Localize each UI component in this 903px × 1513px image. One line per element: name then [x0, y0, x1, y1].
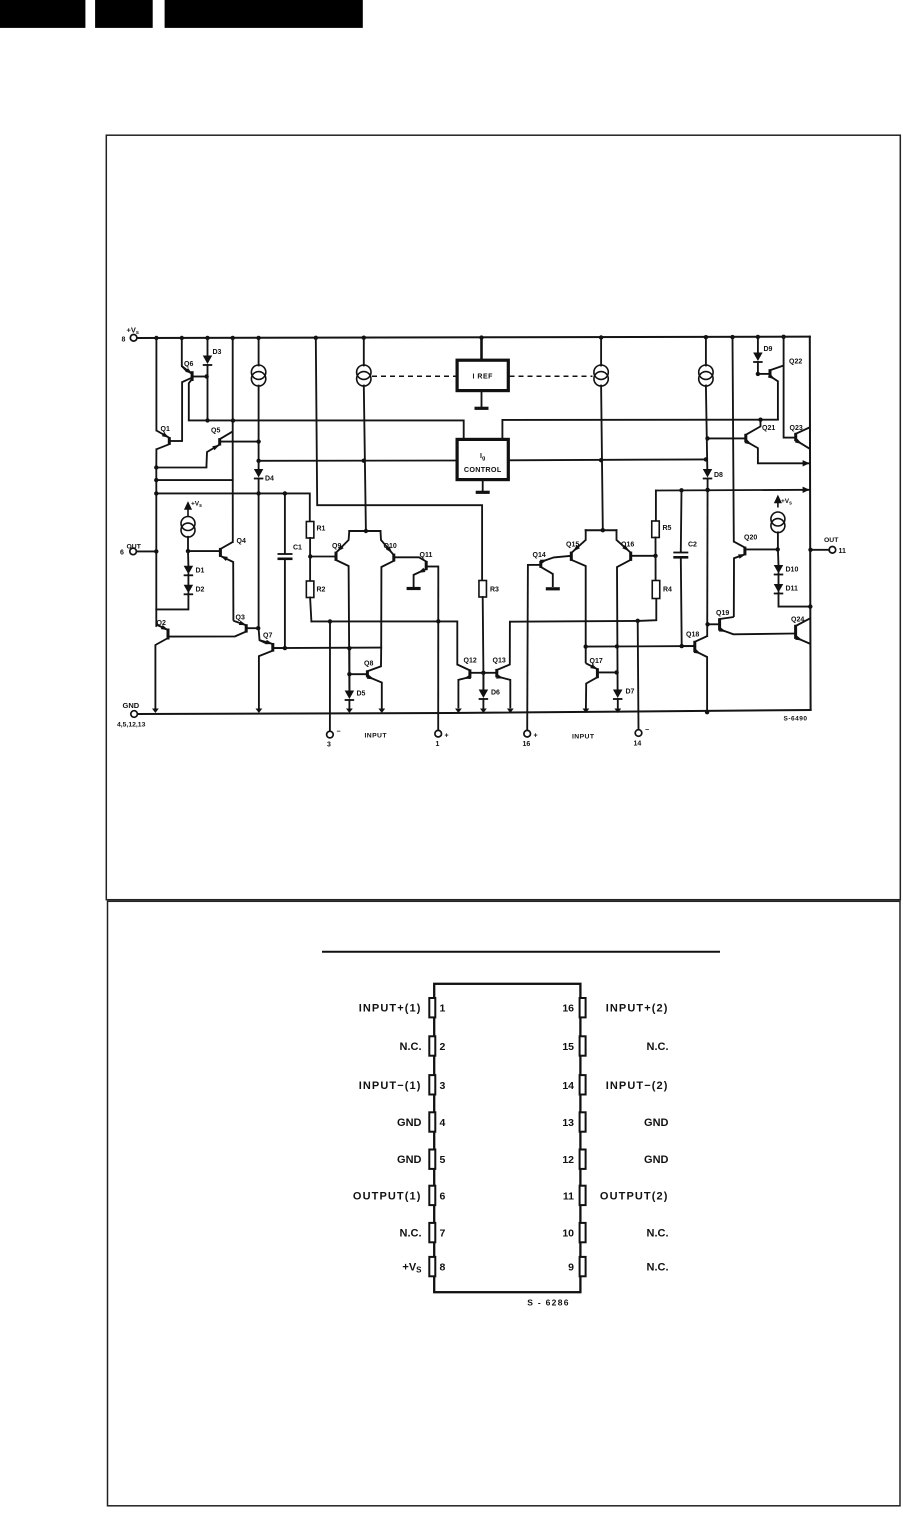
transistor Q7 — [259, 640, 285, 710]
svg-text:3: 3 — [440, 1080, 446, 1092]
junction on +Vs rail — [154, 336, 158, 340]
junction C2 bottom — [680, 644, 684, 648]
pin 1 lead — [429, 998, 435, 1017]
svg-text:R3: R3 — [490, 587, 499, 594]
junction link on left branch — [154, 478, 158, 482]
svg-text:6: 6 — [440, 1190, 446, 1202]
junction OUT(2) on branch — [808, 548, 812, 552]
svg-text:Q7: Q7 — [263, 633, 272, 640]
wire I3 to diff pair tail (2) — [601, 386, 603, 530]
diode D9 — [753, 353, 763, 363]
svg-text:14: 14 — [562, 1080, 574, 1092]
svg-text:INPUT−(1): INPUT−(1) — [359, 1080, 422, 1092]
svg-text:6: 6 — [120, 550, 124, 557]
wire D4 to left output node — [259, 479, 265, 643]
junction D11 on right branch — [808, 604, 812, 608]
svg-text:Q8: Q8 — [364, 661, 373, 668]
current source I6 +Vs arrow — [775, 497, 781, 508]
svg-text:INPUT−(2): INPUT−(2) — [606, 1080, 669, 1092]
svg-text:GND: GND — [397, 1117, 422, 1129]
svg-text:Q21: Q21 — [762, 425, 775, 432]
rail contact D5 — [346, 709, 353, 714]
wire node to output stage rail — [155, 468, 157, 494]
wire rail to D3 — [207, 338, 209, 356]
svg-text:16: 16 — [562, 1003, 574, 1015]
svg-text:Q15: Q15 — [566, 542, 579, 549]
wire rail to current source I1 — [258, 338, 260, 366]
svg-text:3: 3 — [327, 742, 331, 749]
ground symbol at Q11 emitter — [407, 587, 421, 590]
junction on +Vs rail — [362, 336, 366, 340]
junction left branch top — [154, 491, 158, 495]
transistor Q10 — [381, 546, 426, 647]
svg-text:OUT: OUT — [127, 544, 142, 551]
rail contact D7 — [614, 709, 621, 714]
pin 10 lead — [580, 1223, 586, 1242]
transistor Q17 — [586, 663, 617, 708]
svg-text:+VS: +VS — [402, 1262, 422, 1275]
pin 9 lead — [580, 1257, 586, 1276]
junction Q21 collector on bias bus — [758, 418, 762, 422]
svg-text:+Vs: +Vs — [781, 498, 792, 507]
resistor R2 — [306, 581, 314, 598]
pin 11 lead — [580, 1186, 586, 1205]
junction C2 top tap — [679, 488, 683, 492]
pin 13 lead — [580, 1112, 586, 1131]
svg-text:11: 11 — [563, 1190, 574, 1202]
current source I1 — [251, 365, 265, 386]
svg-text:7: 7 — [440, 1228, 446, 1240]
terminal pin 6 OUT(1) — [130, 548, 137, 555]
wire OUT(1) stub — [136, 550, 156, 552]
wire Q20 base wire — [745, 548, 777, 550]
junction on +Vs rail — [704, 335, 708, 339]
svg-text:N.C.: N.C. — [647, 1228, 669, 1240]
rail contact Q7 emitter — [256, 709, 263, 714]
svg-text:4,5,12,13: 4,5,12,13 — [117, 722, 146, 729]
current source I5 — [181, 517, 195, 538]
svg-text:Q18: Q18 — [686, 632, 699, 639]
wire R2 to feedback bus — [310, 598, 311, 622]
rail contact Q8 emitter — [378, 709, 385, 714]
wire I5 to Q4 base node — [187, 537, 189, 551]
svg-text:C1: C1 — [293, 545, 302, 552]
junction bias line x=233 — [231, 418, 235, 422]
svg-text:12: 12 — [562, 1154, 574, 1166]
wire tail to Q15 emitter — [572, 530, 585, 552]
svg-text:Q14: Q14 — [533, 552, 546, 559]
svg-text:8: 8 — [440, 1262, 446, 1274]
junction R5/R4 divider — [653, 554, 657, 558]
junction Q15 collector / Q17 — [584, 644, 588, 648]
junction I4 / Q21 base line — [705, 436, 709, 440]
current source I5 +Vs arrow — [185, 503, 191, 517]
junction on +Vs rail — [781, 335, 785, 339]
svg-text:Q11: Q11 — [420, 552, 433, 559]
block I REF — [457, 360, 508, 390]
pin 4 lead — [429, 1112, 435, 1131]
svg-text:D9: D9 — [764, 346, 773, 353]
pin 2 lead — [429, 1036, 435, 1055]
diode D5 — [345, 691, 355, 701]
svg-text:S - 6286: S - 6286 — [527, 1298, 570, 1308]
transistor Q14 — [528, 556, 571, 587]
wire ground rail — [138, 710, 811, 714]
junction D8 line / mirror bus — [705, 488, 709, 492]
svg-text:N.C.: N.C. — [400, 1228, 422, 1240]
pin-connections frame box — [108, 901, 901, 1506]
transistor Q16 — [617, 545, 656, 690]
svg-text:GND: GND — [644, 1117, 669, 1129]
wire D8 down to Q19/Q18 — [706, 479, 708, 637]
wire D5 to ground rail — [348, 700, 350, 709]
junction D3 line on bias bus — [205, 418, 209, 422]
terminal pin 3 input-(1) — [327, 731, 334, 738]
wire D1 feed — [187, 551, 189, 566]
svg-text:Q17: Q17 — [590, 658, 603, 665]
svg-text:11: 11 — [839, 548, 847, 555]
wire rail to Q20 collector — [733, 337, 734, 541]
svg-text:INPUT+(2): INPUT+(2) — [606, 1003, 669, 1015]
junction input- tap (1) — [328, 619, 332, 623]
wire C2 bottom — [680, 557, 683, 646]
wire D9 to Q22 base — [757, 362, 759, 374]
wire Q1 collector node to Q4 rail link — [156, 479, 232, 481]
svg-text:N.C.: N.C. — [647, 1262, 669, 1274]
transistor Q2 — [155, 625, 246, 709]
wire bus corner to R5 — [655, 491, 657, 522]
svg-text:D3: D3 — [213, 349, 222, 356]
svg-text:15: 15 — [562, 1041, 574, 1053]
svg-text:OUT: OUT — [824, 537, 839, 544]
svg-text:N.C.: N.C. — [647, 1041, 669, 1053]
junction Q19 base tap — [705, 622, 709, 626]
rail contact D6 — [480, 709, 487, 714]
DIP-16 package body — [434, 984, 580, 1292]
svg-text:Q13: Q13 — [493, 658, 506, 665]
wire diff pair tail bar (2) — [586, 529, 617, 531]
wire mirror bus right top — [656, 489, 810, 492]
svg-text:GND: GND — [123, 701, 140, 710]
svg-text:Q23: Q23 — [790, 425, 803, 432]
junction D7 top crossing — [615, 644, 619, 648]
diode D2 — [184, 585, 194, 595]
junction Q17 base tap — [614, 670, 618, 674]
junction I1 line / Ib line — [256, 459, 260, 463]
svg-text:4: 4 — [440, 1117, 446, 1129]
wire feedback bus (2) — [510, 599, 656, 622]
wire Q1/Q5 emitter link — [156, 467, 206, 469]
wire Q4 base wire — [188, 550, 220, 552]
junction D9 / Q22 base — [756, 372, 760, 376]
wire R3 to mirror bases — [482, 597, 485, 690]
wire +Vs supply rail — [137, 337, 810, 338]
rail contact Q12 emitter — [455, 709, 462, 714]
resistor R1 — [306, 522, 314, 539]
svg-text:I REF: I REF — [473, 374, 494, 381]
wire I REF ground stem — [481, 391, 483, 407]
junction input+ tap (1) — [436, 619, 440, 623]
junction on +Vs rail — [730, 335, 734, 339]
terminal GND pins 4,5,12,13 — [131, 711, 138, 718]
svg-text:Q5: Q5 — [211, 428, 220, 435]
svg-text:8: 8 — [122, 337, 126, 344]
black header bar 3 — [165, 0, 363, 28]
capacitor C1 — [278, 554, 293, 559]
rail contact Q13 emitter — [507, 709, 514, 714]
diode D7 — [613, 690, 623, 700]
junction on +Vs rail — [180, 336, 184, 340]
diode D10 — [774, 565, 784, 575]
transistor Q18 — [682, 636, 707, 712]
pin 5 lead — [429, 1150, 435, 1169]
diode D6 — [479, 690, 489, 700]
wire rail to current source I4 — [705, 337, 707, 365]
svg-text:Q24: Q24 — [791, 617, 804, 624]
svg-text:Q20: Q20 — [744, 535, 757, 542]
wire rail to Q6 emitter — [182, 338, 187, 371]
wire Ig CONTROL ground stem — [482, 480, 484, 492]
rail contact Q2 collector — [152, 709, 159, 714]
ground symbol under Ig CONTROL — [476, 491, 490, 494]
svg-text:R5: R5 — [663, 525, 672, 532]
svg-text:Q4: Q4 — [237, 538, 246, 545]
terminal pin 14 input-(2) — [635, 730, 642, 737]
svg-text:D1: D1 — [196, 568, 205, 575]
black header bar 2 — [95, 0, 153, 28]
svg-text:GND: GND — [644, 1154, 669, 1166]
capacitor C2 — [673, 553, 688, 558]
junction on +Vs rail — [231, 336, 235, 340]
pin diagram title rule — [322, 951, 720, 953]
wire C2 riser — [680, 490, 683, 551]
wire input- riser (1) — [329, 621, 331, 731]
rail contact Q17 emitter — [583, 709, 590, 714]
svg-text:+: + — [534, 733, 538, 740]
svg-text:S-6490: S-6490 — [784, 716, 808, 723]
terminal pin 16 input+(2) — [524, 730, 531, 737]
wire bias bus right — [502, 420, 778, 440]
pin 16 lead — [580, 998, 586, 1017]
junction D5 top — [347, 646, 351, 650]
wire D6 to ground rail — [482, 699, 484, 709]
current source I6 — [771, 512, 785, 533]
wire OUT(2) stub — [811, 549, 830, 551]
diode D11 — [774, 584, 784, 594]
pin 3 lead — [429, 1075, 435, 1094]
svg-text:−: − — [645, 727, 649, 734]
wire feedback bus (1) — [311, 621, 457, 664]
current source I4 — [699, 365, 713, 386]
svg-text:+Vs: +Vs — [191, 501, 202, 510]
wire R1 to R2 — [309, 538, 311, 581]
pin 12 lead — [580, 1150, 586, 1169]
svg-text:+Vs: +Vs — [127, 326, 139, 337]
ground symbol under I REF — [475, 407, 489, 410]
resistor R5 — [652, 521, 660, 538]
transistor Q4 — [219, 542, 233, 621]
junction Q18 emitter on ground rail — [705, 710, 709, 714]
junction D8 crossing on bus — [705, 488, 709, 492]
wire Q1 collector down — [155, 449, 157, 467]
junction I2 line / Ib line — [362, 459, 366, 463]
svg-text:INPUT+(1): INPUT+(1) — [359, 1003, 422, 1015]
svg-text:5: 5 — [440, 1154, 446, 1166]
wire D10 feed — [777, 549, 780, 565]
wire D3 to bias line — [207, 365, 209, 420]
diode D1 — [184, 566, 194, 576]
junction D4 on node line — [256, 491, 260, 495]
junction on +Vs rail — [599, 335, 603, 339]
wire right supply branch (vertical right edge) — [809, 337, 812, 710]
svg-text:10: 10 — [562, 1228, 574, 1240]
svg-text:9: 9 — [568, 1262, 574, 1274]
svg-text:OUTPUT(1): OUTPUT(1) — [353, 1190, 422, 1202]
wire Q17 collector bus — [586, 645, 694, 648]
svg-text:D6: D6 — [491, 690, 500, 697]
svg-text:Q19: Q19 — [716, 610, 729, 617]
junction OUT(1) on branch — [154, 549, 158, 553]
wire R5 to R4 — [655, 538, 657, 581]
junction I4 / Ib line right — [704, 457, 708, 461]
wire rail to Q23 base — [783, 337, 785, 438]
block Ig CONTROL — [457, 439, 508, 479]
terminal pin 8 (+Vs) — [130, 335, 137, 342]
svg-text:Q12: Q12 — [464, 658, 477, 665]
transistor Q6 — [182, 366, 206, 420]
wire D1-D2 — [187, 574, 189, 585]
pin 15 lead — [580, 1036, 586, 1055]
svg-text:13: 13 — [562, 1117, 574, 1129]
svg-text:N.C.: N.C. — [400, 1041, 422, 1053]
svg-text:CONTROL: CONTROL — [464, 465, 502, 474]
transistor Q1 — [156, 431, 182, 450]
pin 6 lead — [429, 1186, 435, 1205]
wire input+ riser (2) — [526, 565, 529, 731]
junction mirror base node — [481, 671, 485, 675]
junction Q4 base node — [186, 549, 190, 553]
pin 14 lead — [580, 1075, 586, 1094]
wire rail to current source I2 — [363, 338, 365, 366]
junction Q8 base tap — [347, 672, 351, 676]
svg-text:INPUT: INPUT — [365, 733, 388, 740]
current source I3 — [594, 365, 608, 386]
junction on +Vs rail — [479, 335, 483, 339]
wire C1 bottom to Q7 — [284, 559, 286, 648]
transistor Q3 — [233, 621, 257, 633]
wire C1 riser — [284, 493, 286, 553]
svg-text:2: 2 — [440, 1041, 446, 1053]
wire rail tap to R3 feed — [316, 338, 482, 581]
transistor Q20 — [734, 542, 747, 617]
wire D11 to right branch — [779, 592, 811, 606]
svg-text:Q6: Q6 — [184, 361, 193, 368]
wire D6 branch — [482, 673, 484, 690]
junction C1 top tap — [283, 491, 287, 495]
junction input- tap (2) — [636, 619, 640, 623]
resistor R3 — [479, 581, 487, 598]
wire bias bus left — [189, 420, 464, 439]
svg-text:Q22: Q22 — [789, 359, 802, 366]
arrow junction Q21 emitter into right branch — [803, 460, 810, 466]
transistor Q22 — [758, 366, 784, 420]
wire rail to Q1 emitter — [155, 338, 157, 431]
transistor Q19 — [708, 617, 795, 634]
junction I3 line / Ib line — [599, 458, 603, 462]
wire Q1 base riser to Q6 — [182, 378, 190, 441]
resistor R4 — [652, 581, 660, 599]
wire left branch vertical — [155, 493, 157, 626]
svg-text:R2: R2 — [317, 587, 326, 594]
wire tail to Q16 emitter — [617, 530, 630, 552]
svg-text:16: 16 — [523, 741, 531, 748]
transistor Q24 — [795, 618, 810, 644]
svg-text:INPUT: INPUT — [572, 734, 595, 741]
terminal pin 11 OUT(2) — [829, 547, 836, 554]
svg-text:Q16: Q16 — [621, 542, 634, 549]
ground symbol at Q14 emitter — [546, 587, 560, 590]
wire D2 to branch — [156, 593, 188, 609]
wire I2 to diff pair tail (1) — [364, 386, 366, 532]
wire tail to Q9 emitter — [337, 531, 350, 552]
transistor Q5 — [206, 432, 258, 468]
svg-text:+: + — [445, 733, 449, 740]
transistor Q15 — [571, 545, 585, 663]
wire input- riser (2) — [637, 621, 640, 731]
current source I2 — [357, 365, 371, 386]
junction D3 / Q6 base — [204, 374, 208, 378]
terminal pin 1 input+(1) — [435, 730, 442, 737]
block I REF supply stem — [480, 338, 483, 361]
wire rail to D9 — [757, 337, 759, 353]
diode D8 — [703, 469, 713, 479]
svg-text:R1: R1 — [317, 526, 326, 533]
dashed link I REF to I3 — [510, 375, 593, 377]
wire input+ riser (1) — [437, 567, 439, 731]
wire I6 to OUT node — [777, 532, 779, 549]
svg-text:GND: GND — [397, 1154, 422, 1166]
schematic frame box — [106, 135, 900, 900]
arrow junction mirror bus into right branch — [803, 487, 810, 493]
junction Q20 base node — [776, 547, 780, 551]
svg-text:−: − — [337, 729, 341, 736]
junction on +Vs rail — [256, 336, 260, 340]
svg-text:D8: D8 — [714, 472, 723, 479]
dashed link I2 to I REF — [372, 375, 456, 377]
svg-text:1: 1 — [436, 741, 440, 748]
wire Q7 collector bus — [273, 647, 381, 650]
svg-text:Q10: Q10 — [384, 543, 397, 550]
wire divider to Q9 base — [310, 556, 335, 558]
transistor Q13 — [483, 622, 510, 709]
junction tail (2) — [601, 528, 605, 532]
svg-text:C2: C2 — [688, 542, 697, 549]
junction Q3 base tap — [256, 626, 260, 630]
svg-text:D10: D10 — [786, 567, 799, 574]
junction on +Vs rail — [205, 336, 209, 340]
svg-text:14: 14 — [634, 741, 642, 748]
svg-text:OUTPUT(2): OUTPUT(2) — [600, 1190, 669, 1202]
svg-text:D5: D5 — [357, 691, 366, 698]
transistor Q12 — [457, 665, 483, 709]
svg-text:D7: D7 — [626, 689, 635, 696]
black header bar 1 — [0, 0, 85, 28]
transistor Q8 — [349, 648, 381, 709]
transistor Q11 — [414, 561, 439, 587]
svg-text:Q2: Q2 — [157, 620, 166, 627]
junction C1 bottom — [283, 646, 287, 650]
svg-text:R4: R4 — [663, 587, 672, 594]
